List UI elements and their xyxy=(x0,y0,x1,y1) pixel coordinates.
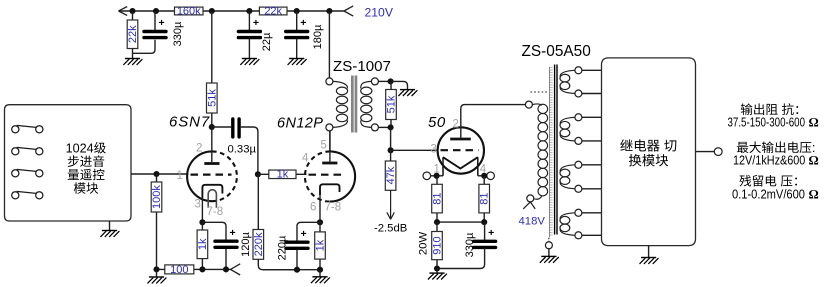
junction rail/120u xyxy=(223,266,229,272)
transformer ZS-05A50 primary winding xyxy=(532,104,547,199)
junction rail/180u xyxy=(294,8,300,14)
label max output heading xyxy=(737,141,816,155)
wire secondary 4 bottom to relay box xyxy=(582,234,602,236)
svg-text:+: + xyxy=(253,17,259,29)
switch contact 3 xyxy=(12,169,43,177)
connector 418V xyxy=(523,202,535,209)
label residual value xyxy=(732,187,819,201)
junction 6N12P cathode xyxy=(317,219,323,225)
svg-text:330µ: 330µ xyxy=(172,21,184,46)
svg-text:ZS-05A50: ZS-05A50 xyxy=(522,43,591,60)
svg-text:50: 50 xyxy=(428,114,446,131)
transformer ZS-05A50 secondary winding 2 xyxy=(560,117,575,141)
terminal secondary 2 bottom xyxy=(575,137,582,144)
ground 180u xyxy=(288,59,307,65)
junction 6N12P grid node xyxy=(255,171,261,177)
svg-text:7-8: 7-8 xyxy=(325,202,342,214)
junction 51k bottom xyxy=(388,124,394,130)
connector 210V xyxy=(344,6,353,16)
transformer ZS-05A50 core xyxy=(549,65,557,238)
wire 50 plate to ZS-05A50 xyxy=(461,105,526,139)
label ZS-1007 xyxy=(333,58,391,75)
resistor 22k bleeder xyxy=(127,11,139,59)
svg-text:ZS-1007: ZS-1007 xyxy=(333,58,391,75)
svg-text:81: 81 xyxy=(479,192,491,204)
wire filament center rail xyxy=(437,221,484,223)
terminal secondary 3 bottom xyxy=(575,185,582,192)
pin 2 6SN7 xyxy=(196,143,202,155)
terminal secondary 1 bottom xyxy=(575,90,582,97)
label impedance values xyxy=(728,116,819,130)
capacitor 330u bias bypass xyxy=(464,222,496,257)
junction 6SN7 cathode xyxy=(199,219,205,225)
terminal filament right xyxy=(487,172,495,180)
svg-text:+: + xyxy=(488,227,494,239)
label 0.33u xyxy=(228,144,257,156)
resistor 51k plate load 6SN7 xyxy=(206,11,218,127)
label 1024-step line1 xyxy=(66,142,106,156)
transformer ZS-05A50 secondary winding 4 xyxy=(560,213,575,236)
junction 6SN7 plate node xyxy=(209,124,215,130)
capacitor 22u filter xyxy=(238,11,273,59)
wire to ground ZS-1007 xyxy=(391,81,408,89)
terminal filament left xyxy=(423,172,431,180)
terminal ZS-1007 secondary bottom xyxy=(371,124,378,131)
wire secondary 4 top to relay box xyxy=(582,212,602,214)
terminal ZS-1007 primary bottom xyxy=(326,124,333,131)
junction rail/220u xyxy=(294,267,300,273)
pins 7-8 6SN7 xyxy=(207,206,224,218)
connector arrow left (to other channel) xyxy=(119,7,128,16)
capacitor 220u cathode bypass xyxy=(276,228,308,270)
svg-text:Ω: Ω xyxy=(809,116,819,130)
svg-text:47k: 47k xyxy=(385,166,397,184)
svg-text:160k: 160k xyxy=(177,5,201,17)
svg-text:-2.5dB: -2.5dB xyxy=(374,223,407,235)
svg-text:6SN7: 6SN7 xyxy=(169,114,210,131)
label output impedance heading xyxy=(741,103,798,115)
pin 1 tube 50 xyxy=(434,164,440,176)
svg-text:81: 81 xyxy=(432,192,444,204)
wire 6N12P cathode rail xyxy=(263,269,320,271)
svg-text:Ω: Ω xyxy=(809,187,819,201)
wire secondary top xyxy=(378,80,390,82)
ground 22k bleeder xyxy=(123,59,142,65)
svg-text:100: 100 xyxy=(170,264,188,276)
wire relay box to ground xyxy=(648,246,650,258)
terminal ZS-1007 secondary top xyxy=(371,78,378,85)
terminal output xyxy=(714,148,722,156)
svg-text:+: + xyxy=(159,17,165,29)
wire cathode to 220u xyxy=(297,222,320,242)
resistor 1k grid stopper xyxy=(269,169,296,181)
junction rail/ground xyxy=(153,266,159,272)
junction rail/ground 6N12P xyxy=(317,267,323,273)
junction rail/22k xyxy=(129,8,135,14)
pin 6 6N12P xyxy=(310,202,316,214)
transformer ZS-1007 secondary winding xyxy=(361,81,372,127)
svg-text:1: 1 xyxy=(177,170,183,182)
svg-text:910: 910 xyxy=(432,236,444,254)
wire grid input 6SN7 xyxy=(131,173,189,175)
label 20W xyxy=(417,232,429,256)
svg-text:12V/1kHz&600: 12V/1kHz&600 xyxy=(733,154,805,168)
capacitor 120u cathode bypass xyxy=(215,227,252,270)
pin 1 6SN7 xyxy=(177,170,183,182)
wire secondary 3 bottom to relay box xyxy=(582,188,602,190)
svg-text:1k: 1k xyxy=(197,238,209,250)
wire to 50 grid node xyxy=(390,127,392,150)
svg-text:37.5-150-300-600: 37.5-150-300-600 xyxy=(728,116,806,130)
label tube 50 xyxy=(428,114,446,131)
label line4 xyxy=(74,182,98,194)
capacitor 180u filter xyxy=(286,11,324,59)
ground 50 stage xyxy=(428,273,447,279)
tube 6N12P triode xyxy=(305,131,355,202)
svg-text:1k: 1k xyxy=(315,239,327,251)
ground transformer core xyxy=(540,256,559,262)
junction rail/ZS-1007 xyxy=(326,8,332,14)
capacitor 330u filter xyxy=(144,11,184,46)
label tube 6SN7 xyxy=(169,114,210,131)
resistor 22k dropper xyxy=(259,5,287,17)
tube 6SN7 triode xyxy=(187,127,237,201)
terminal secondary 1 top xyxy=(575,67,582,74)
svg-text:+: + xyxy=(300,17,306,29)
junction rail/330u xyxy=(153,8,159,14)
resistor 47k feedback xyxy=(385,150,397,190)
svg-text:7-8: 7-8 xyxy=(207,206,224,218)
svg-text:3: 3 xyxy=(431,144,437,156)
label relay line2 xyxy=(629,154,668,166)
wire 220k to rail xyxy=(258,259,297,269)
label -2.5dB xyxy=(374,223,407,235)
terminal ZS-1007 primary top xyxy=(326,78,333,85)
label line2 xyxy=(68,155,104,167)
connector heater return xyxy=(231,264,241,275)
resistor 81 hum balance left xyxy=(432,176,444,222)
label tube 6N12P xyxy=(277,115,323,131)
resistor 910 bias xyxy=(432,222,444,268)
ground 22u xyxy=(240,59,259,65)
svg-text:22k: 22k xyxy=(264,5,282,17)
terminal secondary 4 bottom xyxy=(575,232,582,239)
junction 330u top xyxy=(481,219,487,225)
tube 50 triode xyxy=(438,127,484,176)
pin 3 6SN7 xyxy=(195,199,201,211)
svg-text:5: 5 xyxy=(321,140,327,152)
wire secondary 1 bottom to relay box xyxy=(582,93,602,95)
label relay line1 xyxy=(620,139,676,151)
switch contact 2 xyxy=(12,147,43,155)
resistor 1k cathode 6SN7 xyxy=(197,222,209,269)
junction rail/1k xyxy=(199,266,205,272)
ground 6N12P stage xyxy=(311,277,330,283)
capacitor 0.33u coupling xyxy=(212,119,258,174)
svg-text:120µ: 120µ xyxy=(240,231,252,256)
resistor 220k grid leak xyxy=(253,174,265,259)
pins 7-8 6N12P xyxy=(325,202,342,214)
svg-text:1k: 1k xyxy=(277,169,289,181)
svg-text:180µ: 180µ xyxy=(312,24,324,49)
junction filament left xyxy=(434,173,440,179)
svg-text:22µ: 22µ xyxy=(261,32,273,51)
wire cathode to 120u xyxy=(202,222,226,241)
wire grid stopper to tube xyxy=(296,173,307,175)
wire cathode return rail xyxy=(157,268,231,270)
pin 4 6N12P xyxy=(302,153,309,165)
wire secondary 2 top to relay box xyxy=(582,116,602,118)
wire to 50 grid xyxy=(391,149,439,151)
ground volume module xyxy=(100,231,119,237)
arrow feedback -2.5dB xyxy=(387,190,394,219)
junction bias ground xyxy=(434,265,440,271)
heater 6SN7 pins 7-8 xyxy=(208,190,216,208)
wire 6SN7 cathode xyxy=(201,198,203,223)
svg-text:4: 4 xyxy=(302,153,309,165)
terminal 418V xyxy=(527,195,534,202)
svg-text:+: + xyxy=(230,227,236,239)
svg-text:20W: 20W xyxy=(417,232,429,256)
svg-text:2: 2 xyxy=(196,143,202,155)
terminal core ground xyxy=(545,242,552,249)
wire secondary 2 bottom to relay box xyxy=(582,140,602,142)
svg-text:220k: 220k xyxy=(253,232,265,256)
label max output value xyxy=(733,154,819,168)
ground relay module xyxy=(640,258,659,264)
junction filament right xyxy=(481,173,487,179)
wire filament stub right xyxy=(478,175,487,177)
resistor 1k cathode 6N12P xyxy=(315,222,327,269)
junction 50 grid node xyxy=(388,147,394,153)
wire output xyxy=(696,151,715,153)
wire B+ rail 210V xyxy=(119,10,345,12)
terminal secondary 3 top xyxy=(575,161,582,168)
wire to ground 6SN7 xyxy=(156,269,158,277)
wire 6N12P cathode xyxy=(319,195,321,222)
wire filament stub left xyxy=(431,175,444,177)
wire secondary 1 top to relay box xyxy=(582,69,602,71)
wire rail to ZS-1007 primary xyxy=(328,11,330,78)
label line3 xyxy=(68,169,105,181)
switch contact 1 xyxy=(12,125,43,133)
svg-text:3: 3 xyxy=(195,199,201,211)
resistor 100k grid leak xyxy=(151,174,163,269)
svg-text:418V: 418V xyxy=(519,216,546,228)
pin 5 6N12P xyxy=(321,140,327,152)
switch contact 4 xyxy=(12,191,43,199)
wire 330u to ground xyxy=(133,40,156,54)
relay switching module box xyxy=(602,58,696,246)
resistor 100 hum xyxy=(165,264,194,276)
svg-text:0.33µ: 0.33µ xyxy=(228,144,257,156)
wire to ground 50 stage xyxy=(436,269,438,274)
transformer ZS-1007 core xyxy=(351,76,357,133)
pin 3 tube 50 xyxy=(431,144,437,156)
wire secondary bottom xyxy=(378,126,390,128)
svg-text:0.1-0.2mV/600: 0.1-0.2mV/600 xyxy=(732,187,805,201)
label 210V xyxy=(365,5,394,19)
junction 910 top xyxy=(434,219,440,225)
svg-text:22k: 22k xyxy=(127,25,139,43)
svg-text:330µ: 330µ xyxy=(464,232,476,257)
label ZS-05A50 xyxy=(522,43,591,60)
ground ZS-1007 secondary xyxy=(398,90,417,96)
resistor 81 hum balance right xyxy=(479,176,491,222)
svg-text:100k: 100k xyxy=(151,185,163,209)
svg-text:6N12P: 6N12P xyxy=(277,115,323,131)
wire 6N12P plate to ZS-1007 xyxy=(329,131,331,152)
resistor 51k secondary load xyxy=(386,81,398,127)
wire to ground 6N12P xyxy=(319,270,321,277)
svg-text:6: 6 xyxy=(310,202,316,214)
dotted core ground link xyxy=(548,238,550,242)
terminal secondary 2 top xyxy=(575,114,582,121)
pin 2 tube 50 xyxy=(453,119,459,131)
svg-text:210V: 210V xyxy=(365,5,394,19)
svg-text:2: 2 xyxy=(453,119,459,131)
svg-text:51k: 51k xyxy=(206,89,218,107)
terminal ZS-05A50 primary top xyxy=(525,101,532,108)
wire 330u to ground rail xyxy=(437,248,485,268)
wire secondary 3 top to relay box xyxy=(582,164,602,166)
svg-text:+: + xyxy=(301,228,307,240)
label residual heading xyxy=(739,175,797,187)
terminal secondary 4 top xyxy=(575,209,582,216)
label 418V xyxy=(519,216,546,228)
volume control module box xyxy=(5,105,132,221)
transformer ZS-05A50 secondary winding 1 xyxy=(560,70,575,93)
junction grid/100k xyxy=(153,171,159,177)
junction 51k top xyxy=(388,78,394,84)
ground 6SN7 stage xyxy=(147,277,166,283)
transformer ZS-1007 primary winding xyxy=(333,81,348,127)
svg-text:51k: 51k xyxy=(386,95,398,113)
svg-text:Ω: Ω xyxy=(809,154,819,168)
transformer ZS-05A50 secondary winding 3 xyxy=(560,165,575,189)
pin 4 tube 50 xyxy=(480,164,487,176)
wire box to ground xyxy=(109,221,111,231)
svg-text:220µ: 220µ xyxy=(276,235,288,260)
wire to grid stopper xyxy=(258,173,269,175)
junction rail/51k xyxy=(209,8,215,14)
resistor 160k xyxy=(175,5,204,17)
dotted shield line xyxy=(531,91,550,93)
svg-text:1024: 1024 xyxy=(66,142,94,156)
junction rail/22u xyxy=(246,8,252,14)
wire core to ground xyxy=(548,249,550,257)
